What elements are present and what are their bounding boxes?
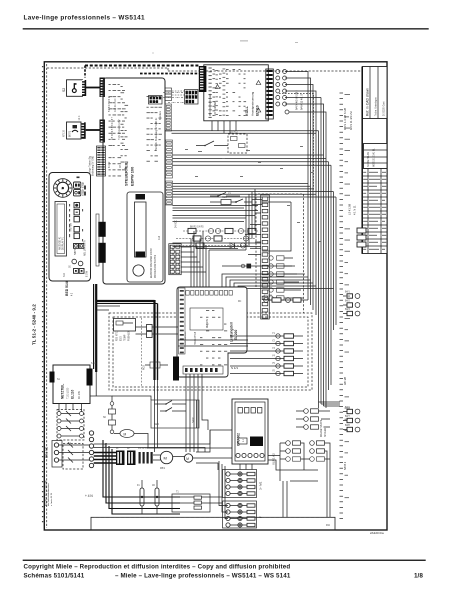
svg-text:B8 R3 C4 R5: B8 R3 C4 R5 [190, 227, 204, 229]
svg-text:EDPW 100: EDPW 100 [130, 167, 135, 186]
power supply NETZTEIL EL110 [53, 365, 90, 404]
connector strip on S2 [82, 80, 86, 96]
NETZTEIL connector bars [50, 363, 98, 386]
auxiliary switch chain S6 [103, 402, 116, 448]
svg-text:24 VDC: 24 VDC [176, 220, 178, 228]
svg-text:WS 5101/5141 EL: WS 5101/5141 EL [374, 148, 376, 167]
dash-dot leader X4 to X3 [163, 93, 184, 103]
svg-text:Beachten Sie vor allen Arb.: Beachten Sie vor allen Arb. [45, 479, 48, 506]
header rule [23, 28, 429, 29]
valve row 3 [270, 348, 303, 353]
extra mid wires [96, 206, 261, 311]
power board Leistungsteil EL 200 [177, 287, 247, 377]
svg-text:LS 41 2/8: LS 41 2/8 [348, 203, 352, 215]
NETZTEIL to relay wires [59, 404, 82, 412]
main control board STEUERTEIL EDPW 100 [103, 78, 165, 284]
net label column B [343, 108, 353, 470]
svg-text:REL 24V: REL 24V [207, 318, 209, 328]
stray marks above frame [152, 41, 298, 54]
terminal circles column right [89, 431, 93, 468]
svg-text:DC: DC [238, 301, 242, 303]
middle connector ladder X15 [261, 195, 270, 319]
svg-text:B4/2: B4/2 [345, 301, 350, 303]
switch symbol row [210, 193, 240, 197]
svg-text:C1 C2 C3: C1 C2 C3 [138, 448, 149, 450]
aux component in dashed box [145, 362, 168, 368]
component row 2 [176, 236, 256, 241]
relay contact K3 on wire [222, 264, 292, 269]
drain pump M5/1 [153, 451, 173, 470]
svg-text:B4/1: B4/1 [345, 292, 350, 294]
svg-text:SCHALTPLAN: SCHALTPLAN [367, 152, 370, 167]
svg-text:9/4 N 1-4 1/8 N 1/8: 9/4 N 1-4 1/8 N 1/8 [343, 108, 347, 130]
svg-text:die Sicherheitshinweise: die Sicherheitshinweise [47, 482, 50, 506]
net labels near display connector [295, 90, 304, 110]
footer line 1 [24, 564, 291, 571]
svg-text:12 C: 12 C [79, 115, 81, 120]
tick labels column [345, 94, 351, 498]
wires down to duct [283, 402, 340, 517]
warning triangle A2 [256, 81, 261, 85]
bus wires X8 to right [173, 184, 337, 198]
vertical wires left of ladder [173, 189, 256, 250]
vertical wires into power board top-left [191, 231, 246, 289]
board edge connector bars (black) [96, 214, 106, 266]
nested corner wires to power board [222, 202, 334, 300]
thick mains wires to NETZTEIL [97, 300, 158, 380]
valve row 2 [270, 341, 303, 346]
sensor B3/1 row [343, 407, 360, 414]
left margin vertical text TL 51-2 - 5240 - 9.2 [32, 304, 37, 345]
svg-text:ABL LFA 1 STA: ABL LFA 1 STA [84, 240, 87, 256]
EDPW right edge connector X8 ladder [166, 181, 173, 205]
line filter choke L2 [127, 448, 136, 465]
board silk text top [109, 96, 162, 168]
svg-text:2N8: 2N8 [106, 443, 108, 448]
dashed enclosure outer [109, 313, 312, 390]
connector strip on B7/1 [82, 122, 86, 139]
line filter choke L1 [116, 448, 125, 465]
inner dashed border top [47, 67, 168, 69]
wires from display connector to right bundle [285, 72, 326, 189]
svg-text:1/8: 1/8 [414, 573, 423, 580]
board silk extra [109, 84, 162, 176]
panel type label BED 5140 [65, 280, 74, 296]
pressure switch row components mid dashed box [264, 296, 301, 303]
footer rule [23, 560, 426, 561]
svg-text:s. Instr. 41 31: s. Instr. 41 31 [50, 492, 53, 506]
svg-text:DISPLAY P1: DISPLAY P1 [62, 236, 65, 250]
EDPW right edge pins upper [165, 88, 198, 101]
motor terminal block upper 3~M1 [223, 470, 263, 498]
display board silk extra [233, 69, 247, 116]
warning triangle A1 [215, 85, 220, 89]
svg-text:X12 X11 X10: X12 X11 X10 [115, 98, 117, 112]
svg-text:X20 SUMMER: X20 SUMMER [215, 101, 217, 116]
EDPW right edge connector X6 [165, 104, 172, 131]
svg-text:XLR1 A2: XLR1 A2 [272, 453, 276, 465]
connector X4 small strip [149, 96, 163, 105]
dashed screen line top right [279, 94, 314, 191]
wires ladder to components left [245, 213, 261, 255]
wire B7/1 to X2 [86, 129, 100, 131]
selector aux buttons [74, 177, 87, 197]
label 4 N [85, 494, 93, 498]
svg-text:NTC B: NTC B [64, 130, 66, 137]
svg-text:Techn. Unterlagen: Techn. Unterlagen [375, 97, 378, 116]
contactor contacts dashed box [59, 443, 90, 470]
mains terminal block BR1 [45, 441, 63, 468]
connector pair X18 [136, 325, 179, 338]
wire number tick column [340, 93, 344, 519]
svg-text:3/8 1/8: 3/8 1/8 [343, 377, 347, 385]
disclaimer text block left [45, 479, 53, 506]
wires display board bottom down [212, 121, 236, 134]
svg-text:S2: S2 [62, 88, 66, 92]
display board internals [209, 68, 226, 118]
svg-text:3~ M1: 3~ M1 [259, 481, 263, 490]
terminal block T1 [172, 492, 210, 513]
svg-text:B4/5: B4/5 [154, 424, 159, 426]
svg-text:9/4 N 4/5 W 5/8 I: 9/4 N 4/5 W 5/8 I [295, 90, 299, 110]
svg-text:SPULEN: SPULEN [325, 427, 327, 437]
wire S2 to X1 [86, 87, 100, 89]
svg-text:TEMP: TEMP [125, 334, 127, 341]
label XLR1 A2 [272, 453, 276, 465]
terminal circles column on X11 [276, 70, 289, 115]
SB 5150 buttons [73, 240, 87, 256]
valve Y12 extra [280, 457, 330, 462]
EL200 black connector bar [173, 357, 179, 381]
connector X11 striped strip [266, 69, 274, 119]
svg-text:K1/2: K1/2 [222, 197, 227, 199]
valve row 4 [270, 356, 303, 361]
key pad buttons [70, 203, 80, 239]
svg-text:B3/7: B3/7 [345, 416, 350, 418]
svg-text:5/2 8 D T 2/3 2: 5/2 8 D T 2/3 2 [109, 96, 111, 112]
frequency converter OFU 002 [232, 399, 268, 464]
sensor B7/1 [64, 115, 82, 139]
circulation pump M5/3 [114, 430, 158, 449]
svg-text:9/4 A 11 4/1 S: 9/4 A 11 4/1 S [300, 94, 304, 110]
connector X1 on board edge [100, 78, 105, 98]
right vertical wire bundle [308, 98, 336, 409]
svg-text:TRIAC BTA8: TRIAC BTA8 [194, 331, 197, 345]
svg-text:Schémas 5101/5141: Schémas 5101/5141 [24, 573, 85, 580]
valve row 1 [270, 333, 303, 338]
component row 3 diode pair [176, 243, 250, 248]
sensor B4/1 row [343, 292, 360, 299]
svg-text:Kondens: Kondens [160, 110, 162, 120]
lower ladder X16 on EDPW [169, 244, 181, 275]
relay contact row K1 K2 [210, 197, 291, 205]
service buttons [64, 259, 89, 277]
magnet valve group Y10 [296, 409, 330, 437]
display board KOLL / Anzeigesteuerung EL 110 [204, 65, 268, 121]
door lock switch S2 [62, 80, 83, 97]
svg-text:4 1 N 11: 4 1 N 11 [353, 205, 357, 215]
scattered wire labels mid band [185, 146, 321, 242]
svg-text:Bedienung 5V GND: Bedienung 5V GND [93, 155, 95, 176]
svg-text:R30 NTC: R30 NTC [117, 331, 119, 341]
svg-text:BR1 AC: BR1 AC [45, 446, 49, 458]
svg-text:K11 K12 K13: K11 K12 K13 [185, 331, 187, 345]
motor terminal block lower [223, 501, 263, 528]
valve group lower Y11 [280, 441, 330, 481]
svg-text:EL 200: EL 200 [234, 330, 238, 340]
svg-text:S 1/1: S 1/1 [231, 366, 238, 370]
net label LS41 [348, 203, 357, 215]
fuse A5 [152, 480, 159, 514]
component row R group mid [183, 227, 258, 234]
24VDC label [176, 220, 178, 228]
relay coil column K2 [267, 253, 303, 300]
svg-text:DC 24V: DC 24V [79, 390, 81, 399]
svg-text:K1 K2: K1 K2 [109, 161, 111, 168]
svg-text:Anzeigesteuerung: Anzeigesteuerung [251, 91, 255, 116]
svg-text:5/8 B 2: 5/8 B 2 [343, 461, 347, 470]
display window [55, 202, 67, 257]
svg-text:B3/8: B3/8 [345, 425, 350, 427]
svg-text:FUEHLER: FUEHLER [129, 330, 131, 341]
svg-text:C6 R12: C6 R12 [230, 132, 239, 134]
drawing frame [43, 62, 387, 530]
svg-text:MAGNETVENTIL: MAGNETVENTIL [320, 418, 323, 437]
top dashed bus to display board [85, 66, 199, 78]
svg-text:B7/1: B7/1 [68, 130, 72, 137]
board inner module [127, 192, 163, 282]
svg-text:B4/3: B4/3 [345, 309, 350, 311]
door interlock circuit box [151, 400, 199, 428]
svg-text:E SW: E SW [87, 270, 89, 277]
svg-text:EL 110: EL 110 [256, 105, 260, 116]
svg-text:Copyright Miele – Reproduction: Copyright Miele – Reproduction et diffus… [24, 564, 291, 571]
svg-text:Ref. in CAD drawn: Ref. in CAD drawn [366, 88, 370, 116]
EL200 left edge pin ladder [179, 288, 185, 354]
wire netzteil bottom to interlock [90, 372, 151, 402]
svg-text:M: M [124, 432, 127, 436]
NTC sensor circuit [114, 319, 136, 342]
warning triangle A3 [256, 108, 261, 112]
filter capacitors C1-C4 [138, 448, 153, 464]
wire group X7 to right [173, 155, 332, 165]
svg-text:PROZESSOR 80C552: PROZESSOR 80C552 [155, 254, 157, 278]
inner dashed border left [46, 64, 48, 528]
sensor B3/8 row [343, 425, 360, 432]
thick mains feed lines [94, 453, 116, 464]
svg-text:START STOP: START STOP [82, 181, 85, 196]
wires from ladder into dashed box left [178, 336, 270, 374]
wire bundle into motor blocks [180, 461, 228, 519]
svg-text:M: M [186, 457, 189, 461]
wire pair X6 to bundle [165, 131, 319, 134]
svg-text:B1/3 P1: B1/3 P1 [264, 296, 273, 298]
title block [362, 67, 387, 254]
extra silk text board interiors [69, 69, 229, 365]
X16 to drop wires [181, 247, 206, 272]
pump M5/2 [173, 454, 232, 462]
small label boxes right margin [357, 228, 366, 247]
svg-text:S4 N1: S4 N1 [193, 416, 195, 423]
svg-text:Lave-linge professionnels – WS: Lave-linge professionnels – WS5141 [24, 15, 145, 22]
connector X10 black strip on display board [199, 66, 207, 92]
svg-text:ANZEIGE 41: ANZEIGE 41 [59, 236, 62, 250]
wire thick from board bottom [94, 284, 97, 372]
switch contact cluster mid [196, 132, 247, 154]
sensor B3/7 row [343, 416, 360, 423]
svg-text:D-33325 Guet: D-33325 Guet [383, 101, 386, 116]
svg-text:BED 5140: BED 5140 [65, 280, 69, 296]
programme selector rotary switch S1 [54, 179, 73, 198]
svg-text:X14: X14 [159, 235, 161, 240]
connector X2 on board edge [100, 120, 105, 143]
connector X3 pin grid [185, 90, 199, 105]
plot stamp text [370, 531, 384, 535]
svg-text:9/5 N 1/4 5 8/3 D 0/8 T: 9/5 N 1/4 5 8/3 D 0/8 T [112, 116, 114, 140]
bottom cable duct box [91, 517, 335, 530]
svg-text:EL110: EL110 [71, 390, 75, 399]
svg-text:+ 4 N: + 4 N [85, 494, 93, 498]
relay contact block K1 [57, 410, 84, 446]
connector X5 pin grid with labels [89, 146, 106, 176]
svg-text:STEUERTEIL: STEUERTEIL [124, 161, 129, 186]
svg-text:TL 51-2 - 5240 - 9.2: TL 51-2 - 5240 - 9.2 [32, 304, 37, 345]
header title [24, 15, 145, 22]
sensor B4/3 row [343, 309, 360, 316]
svg-text:NETZTEIL: NETZTEIL [61, 384, 65, 399]
fuse F1 [137, 480, 144, 514]
svg-text:2A320 tha: 2A320 tha [370, 531, 384, 535]
valve row 6 [270, 371, 303, 376]
sensor B4/2 row [343, 301, 360, 308]
switch S12 under power board [160, 408, 178, 412]
footer line 2 [24, 573, 424, 580]
svg-text:9/4 N 11 4/1 LNI: 9/4 N 11 4/1 LNI [349, 111, 353, 130]
switch S11 under power board [160, 401, 178, 405]
dashed enclosure inner [113, 317, 308, 387]
left border tick comb [42, 66, 44, 526]
extra bottom wires [94, 430, 290, 470]
wires EDPW bottom pins to lower-left ladder [170, 245, 179, 274]
svg-text:T131/LS30: T131/LS30 [68, 387, 70, 399]
valve row 5 [270, 363, 303, 368]
svg-text:Leistungsteil: Leistungsteil [230, 322, 234, 342]
svg-text:D5 D4 D3 D2 D1 LED: D5 D4 D3 D2 D1 LED [210, 93, 212, 116]
svg-text:EEPROM SPEICHER 93C66: EEPROM SPEICHER 93C66 [151, 248, 153, 278]
svg-text:S 1/1: S 1/1 [91, 363, 97, 365]
sensor line label K15 [142, 318, 146, 386]
EDPW right edge connector X7 ladder [166, 140, 173, 178]
dashed enclosure tall [256, 194, 304, 313]
wire bundle to bottom [103, 440, 180, 514]
wires mid bottom [155, 380, 233, 470]
wires power board to pumps [155, 374, 209, 452]
svg-text:M5/1: M5/1 [160, 468, 166, 470]
svg-text:S10: S10 [64, 272, 66, 277]
svg-text:M: M [164, 456, 167, 461]
svg-text:B3/2: B3/2 [121, 336, 123, 341]
svg-text:– Miele – Lave-linge professio: – Miele – Lave-linge professionnels – WS… [115, 573, 291, 580]
control panel BED [49, 173, 91, 282]
